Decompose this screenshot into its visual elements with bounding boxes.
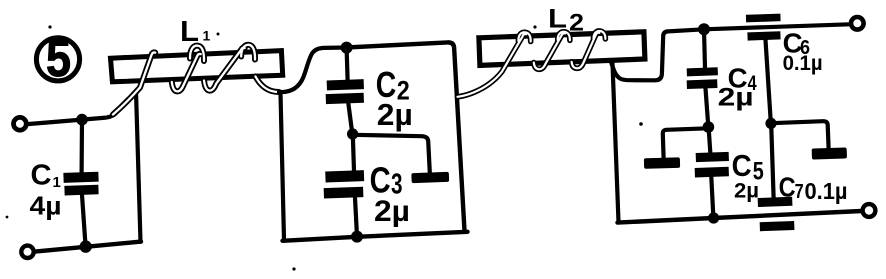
junction dot bottom rail 1 bbox=[80, 240, 92, 252]
svg-text:7: 7 bbox=[795, 181, 804, 203]
label C3 bbox=[370, 160, 403, 201]
wire: L1 lower lead to bottom rail segment 2 bbox=[281, 94, 285, 240]
wire: bottom rail segment 3 bbox=[618, 211, 862, 223]
svg-text:0.1µ: 0.1µ bbox=[805, 178, 848, 204]
ground bar (right of section 3) bbox=[812, 147, 847, 159]
junction dot C3 bottom on rail bbox=[351, 231, 363, 243]
svg-text:C: C bbox=[732, 148, 752, 183]
output terminal (top right) bbox=[851, 17, 864, 30]
capacitor C5 bbox=[695, 129, 729, 218]
svg-text:2: 2 bbox=[569, 10, 584, 37]
speck left edge bbox=[6, 216, 9, 219]
label C5 bbox=[732, 148, 764, 186]
svg-text:4µ: 4µ bbox=[30, 191, 62, 221]
capacitor C4 bbox=[687, 30, 718, 127]
label C4 bbox=[728, 63, 757, 95]
wire: node X to left ground bbox=[663, 128, 708, 158]
junction dot C4/C5 midpoint bbox=[703, 121, 715, 133]
wire: bottom rail segment 1 bbox=[35, 242, 141, 252]
speck above L2 bbox=[533, 25, 536, 28]
svg-text:1: 1 bbox=[203, 28, 211, 44]
label C1 bbox=[31, 159, 61, 191]
label L1 bbox=[180, 16, 211, 48]
input terminal (top left) bbox=[14, 117, 27, 130]
svg-text:2µ: 2µ bbox=[374, 195, 410, 228]
node B junction dot bbox=[341, 42, 353, 54]
capacitor C3 bbox=[324, 135, 365, 237]
speck left of node X bbox=[639, 122, 643, 126]
wire: C2/C3 midpoint to ground bbox=[353, 135, 430, 173]
junction dot C6/C7 midpoint bbox=[765, 118, 776, 129]
wire: input top to node A bbox=[28, 112, 118, 125]
wire: L1 output S-curve up to node B rail bbox=[279, 48, 347, 93]
svg-text:1: 1 bbox=[53, 174, 61, 191]
label C2 bbox=[376, 64, 410, 105]
svg-text:0.1µ: 0.1µ bbox=[783, 52, 823, 75]
output terminal (bottom right) bbox=[863, 204, 876, 217]
svg-text:C: C bbox=[779, 172, 796, 203]
label L2 bbox=[548, 4, 584, 37]
wire: L2 lower-winding lead down to bottom rail bbox=[613, 64, 619, 222]
capacitor C2 bbox=[326, 48, 364, 134]
speck bottom middle bbox=[292, 267, 295, 270]
speck near badge bbox=[48, 25, 51, 28]
node C junction dot bbox=[698, 23, 710, 35]
inductor L1 ferrite bar bbox=[111, 51, 283, 82]
ground bar (C2/C3 midpoint) bbox=[411, 172, 449, 183]
capacitor C6 bbox=[746, 14, 781, 123]
svg-text:2µ: 2µ bbox=[718, 84, 754, 112]
junction dot C5 bottom on rail bbox=[708, 212, 719, 223]
speck above L1 bbox=[217, 33, 220, 36]
svg-text:C: C bbox=[31, 159, 52, 191]
capacitor C7 bbox=[758, 125, 795, 232]
label C7 bbox=[779, 172, 804, 203]
wire: bottom rail segment 2 bbox=[283, 232, 468, 241]
svg-text:L: L bbox=[180, 16, 199, 48]
svg-text:5: 5 bbox=[46, 30, 71, 88]
capacitor C1 bbox=[63, 120, 98, 247]
figure number badge 5 bbox=[36, 30, 79, 88]
label C6 bbox=[783, 28, 810, 59]
inductor L2 ferrite bar bbox=[479, 32, 645, 66]
junction dot C2/C3 midpoint bbox=[347, 128, 358, 139]
wire: node B top rail to right vertical bbox=[347, 42, 465, 230]
ground bar (left of section 3) bbox=[644, 157, 680, 168]
svg-text:2µ: 2µ bbox=[377, 97, 413, 132]
svg-text:2µ: 2µ bbox=[734, 179, 759, 202]
wire: L2 output to node C top rail and output terminal bbox=[611, 24, 850, 80]
node A junction dot bbox=[76, 114, 88, 126]
input terminal (bottom left) bbox=[21, 246, 33, 258]
wire: node X to right ground bbox=[771, 121, 828, 148]
wire: L1 lower-winding lead down to bottom rail bbox=[136, 92, 141, 242]
svg-text:L: L bbox=[548, 4, 567, 34]
